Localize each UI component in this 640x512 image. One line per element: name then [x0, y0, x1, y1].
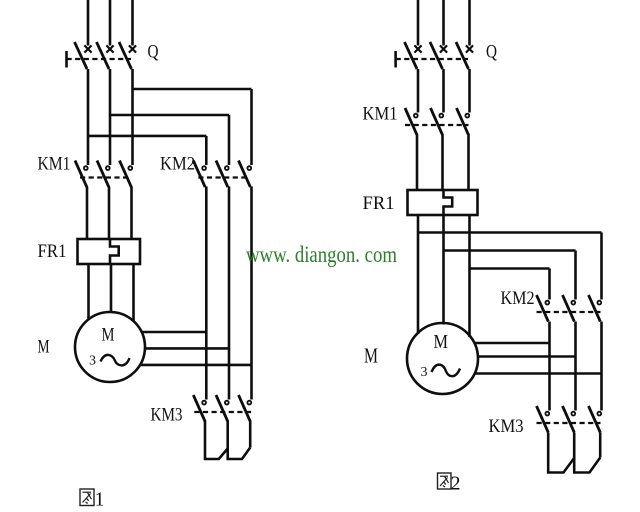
svg-text:KM2: KM2	[160, 154, 195, 175]
svg-text:www. diangon. com: www. diangon. com	[246, 242, 397, 267]
svg-text:Q: Q	[486, 42, 497, 63]
svg-text:KM2: KM2	[501, 288, 535, 309]
svg-text:3: 3	[89, 354, 96, 369]
svg-text:KM3: KM3	[151, 405, 183, 426]
svg-text:2: 2	[451, 473, 461, 495]
svg-text:KM3: KM3	[489, 416, 524, 437]
svg-text:3: 3	[421, 365, 428, 380]
svg-text:M: M	[434, 331, 449, 353]
svg-text:M: M	[364, 344, 378, 368]
svg-text:FR1: FR1	[38, 241, 67, 262]
svg-text:Q: Q	[148, 42, 159, 63]
svg-text:M: M	[38, 337, 50, 358]
svg-text:KM1: KM1	[363, 104, 398, 125]
svg-text:FR1: FR1	[363, 193, 395, 214]
svg-text:KM1: KM1	[38, 154, 71, 175]
svg-text:M: M	[102, 325, 115, 346]
svg-text:1: 1	[95, 489, 105, 511]
